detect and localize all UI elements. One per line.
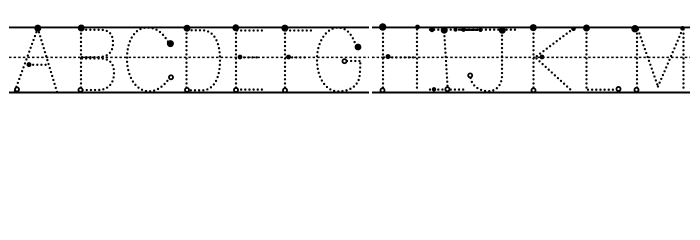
mid dot E <box>238 55 243 60</box>
start dot J <box>499 27 506 34</box>
end circle L <box>616 87 620 91</box>
end circle M <box>634 88 638 92</box>
start dot F <box>281 25 288 32</box>
letter C stroke <box>127 28 170 92</box>
letter H strokes <box>383 30 417 92</box>
start dot M <box>631 25 638 32</box>
start dot C <box>167 40 174 47</box>
letter E strokes <box>236 30 266 92</box>
start dot B <box>78 25 85 32</box>
guide middle dashed line segment 2 <box>372 56 690 58</box>
guide bottom line segment 2 <box>372 92 690 94</box>
end circle J <box>468 73 472 77</box>
start dot L <box>583 25 590 32</box>
bar dot J left <box>461 28 465 32</box>
letter L strokes <box>587 30 616 90</box>
start dot I <box>441 27 448 34</box>
diagonal dot K top <box>571 27 576 32</box>
guide top line segment 2 <box>372 26 690 28</box>
guide middle dashed line segment 1 <box>9 56 369 58</box>
bar dot I right <box>454 28 458 32</box>
end circle H <box>380 88 384 92</box>
start dot A apex <box>34 25 41 32</box>
letter F strokes <box>285 30 311 92</box>
end circle I <box>445 87 449 91</box>
end circle C <box>169 75 173 79</box>
end circle E <box>234 88 238 92</box>
bar dot I bottom left <box>432 87 436 91</box>
letter G strokes <box>317 28 360 92</box>
letter A strokes <box>15 28 58 92</box>
start dot E <box>232 24 239 31</box>
end circle B <box>78 88 82 92</box>
start dot H right <box>415 25 420 30</box>
start dot D <box>184 25 191 32</box>
end circle K <box>531 88 535 92</box>
letter M strokes <box>637 30 684 92</box>
start dot G <box>355 44 362 51</box>
mid dot F <box>286 55 291 60</box>
end circle D <box>185 88 189 92</box>
guide bottom line segment 1 <box>9 92 369 94</box>
end circle G <box>342 59 346 63</box>
letter B strokes <box>81 30 114 92</box>
bar dot J mid <box>478 28 482 32</box>
letter I strokes <box>430 30 466 90</box>
end circle F <box>283 88 287 92</box>
letter J strokes <box>461 30 516 91</box>
junction dot K <box>540 55 545 60</box>
crossbar dot A <box>27 62 32 67</box>
crossbar dot H <box>386 54 391 59</box>
guide top line segment 1 <box>9 26 369 28</box>
letter D strokes <box>187 30 221 92</box>
bar dot I left <box>430 27 435 32</box>
letter K strokes <box>534 30 573 92</box>
start dot H left <box>379 23 386 30</box>
top dot M right <box>680 26 685 31</box>
start dot K <box>530 24 537 31</box>
end circle A <box>15 87 19 91</box>
